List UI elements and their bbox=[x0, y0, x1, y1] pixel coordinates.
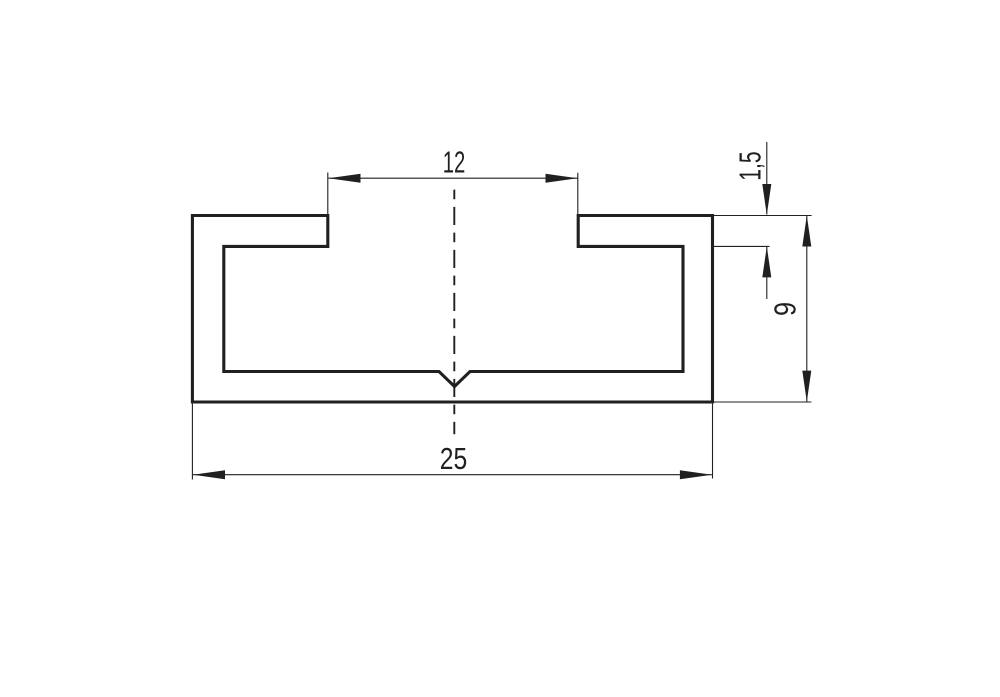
svg-text:12: 12 bbox=[443, 146, 466, 179]
svg-text:9: 9 bbox=[768, 302, 802, 316]
svg-text:1,5: 1,5 bbox=[733, 151, 768, 180]
svg-text:25: 25 bbox=[440, 441, 467, 475]
